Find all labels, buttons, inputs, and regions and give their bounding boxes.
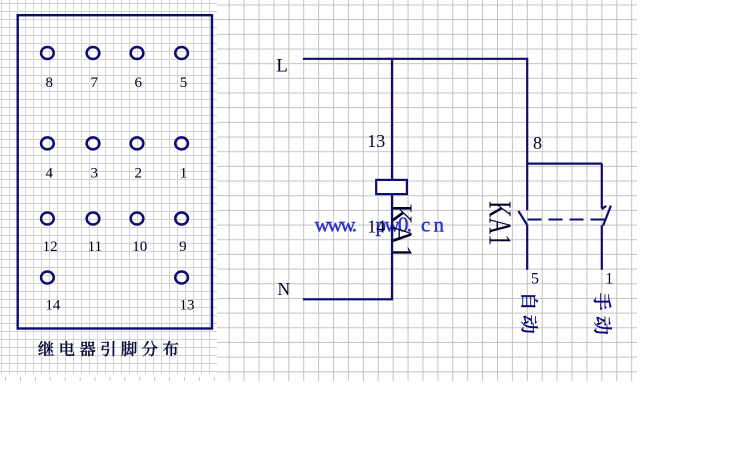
pin circle 6 <box>131 47 144 59</box>
svg-text:3: 3 <box>90 165 98 181</box>
svg-text:L: L <box>276 56 288 77</box>
svg-text:6: 6 <box>135 75 143 91</box>
wire below KA1 contact <box>526 224 528 269</box>
caption 继电器引脚分布 <box>38 341 53 356</box>
pin circle 1 <box>175 137 188 149</box>
svg-text:KA1: KA1 <box>384 204 418 259</box>
svg-text:8: 8 <box>45 75 53 91</box>
wire from L down to coil <box>391 58 393 180</box>
svg-text:14: 14 <box>45 297 61 313</box>
pin circle 11 <box>87 213 100 225</box>
svg-text:www.: www. <box>315 213 358 237</box>
mechanical link dashed <box>528 219 607 221</box>
KA1 contact blade <box>518 211 527 225</box>
svg-text:13: 13 <box>180 297 195 313</box>
svg-text:cn: cn <box>421 213 445 237</box>
svg-text:5: 5 <box>180 75 188 91</box>
pin circle 9 <box>175 213 188 225</box>
pin circle 12 <box>41 213 54 225</box>
pin circle 14 <box>41 272 54 284</box>
svg-text:11: 11 <box>88 239 102 255</box>
svg-text:14: 14 <box>367 217 385 237</box>
grid paper right <box>0 0 637 381</box>
svg-text:KA1: KA1 <box>481 201 517 246</box>
pin circle 10 <box>131 213 144 225</box>
pin circle 13 <box>175 272 188 284</box>
pin circle 4 <box>41 137 54 149</box>
relay coil KA1 <box>376 180 407 194</box>
wire branch to manual <box>527 163 602 165</box>
grid paper left <box>0 0 217 377</box>
pin circle 2 <box>131 137 144 149</box>
svg-text:1: 1 <box>605 270 613 287</box>
svg-text:2: 2 <box>135 165 143 181</box>
svg-text:N: N <box>278 279 291 299</box>
svg-text:4: 4 <box>45 165 53 181</box>
label 自动 (auto) <box>521 295 538 307</box>
manual contact blade <box>603 206 611 226</box>
pin circle 7 <box>87 47 100 59</box>
pin circle 8 <box>41 47 54 59</box>
wire L horizontal <box>303 58 527 60</box>
svg-text:12: 12 <box>43 239 58 255</box>
wire below manual contact <box>601 225 603 270</box>
pin circle 5 <box>175 47 188 59</box>
wire L down right branch <box>526 58 528 211</box>
wire down to manual contact <box>601 164 603 209</box>
manual contact tick <box>602 206 606 209</box>
svg-text:9: 9 <box>179 239 187 255</box>
svg-text:10: 10 <box>132 239 147 255</box>
svg-text:1: 1 <box>180 165 188 181</box>
svg-text:7: 7 <box>90 75 98 91</box>
wire coil to N <box>391 194 393 299</box>
relay outline box <box>18 15 212 328</box>
svg-text:8: 8 <box>533 133 542 153</box>
label 手动 (manual) <box>594 293 612 310</box>
svg-text:5: 5 <box>531 270 539 287</box>
pin circle 3 <box>87 137 100 149</box>
wire N horizontal <box>303 298 393 300</box>
svg-text:13: 13 <box>367 131 385 151</box>
